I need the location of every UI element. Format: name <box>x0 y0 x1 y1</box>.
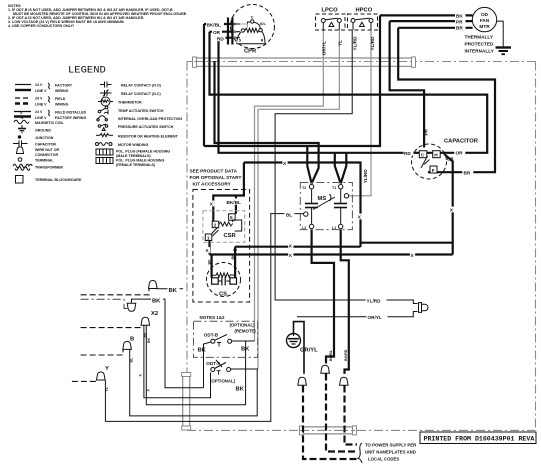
pressure actuated switch <box>98 124 108 131</box>
wire nut 3 (power) <box>340 377 349 385</box>
ODT-B dash-dot box <box>194 321 258 357</box>
svg-text:24 V: 24 V <box>35 83 43 87</box>
legend left column text <box>35 83 87 182</box>
svg-text:BK: BK <box>231 254 235 260</box>
wire fan ground <box>497 21 504 46</box>
wire X2 BK #2 to ODT-B right leg <box>146 326 245 405</box>
svg-text:BR: BR <box>456 26 463 31</box>
svg-text:TERMINAL BLOCK/BOARD: TERMINAL BLOCK/BOARD <box>35 178 82 182</box>
wire T1 left slant from RD line <box>335 153 341 184</box>
wire T2 left slant <box>307 146 311 184</box>
wire OR/YL to bullet plug <box>297 312 418 317</box>
svg-text:CONNECTOR: CONNECTOR <box>35 153 58 157</box>
pol plug male <box>96 158 113 164</box>
right bottom labels <box>366 297 387 303</box>
svg-text:ODT-A: ODT-A <box>206 361 221 366</box>
svg-text:MTR: MTR <box>479 24 490 29</box>
svg-text:LPCO: LPCO <box>322 8 339 14</box>
svg-text:BK/RD: BK/RD <box>344 349 348 361</box>
svg-text:BL: BL <box>129 357 133 363</box>
dash-dot through top bar <box>194 61 414 63</box>
svg-text:BK: BK <box>143 332 147 338</box>
svg-text:PROTECTED: PROTECTED <box>465 42 495 47</box>
svg-text:YL/RD: YL/RD <box>370 36 375 51</box>
svg-text:OR: OR <box>456 151 464 156</box>
relay contact NC <box>100 90 112 97</box>
svg-text:OR/YL: OR/YL <box>368 315 382 320</box>
ground symbol fan <box>496 48 512 55</box>
svg-text:KIT ACCESSORY: KIT ACCESSORY <box>193 182 232 187</box>
svg-text:FAN: FAN <box>480 18 490 23</box>
run capacitor dashed circle <box>412 144 447 179</box>
printed from box <box>420 432 536 444</box>
svg-text:24 V: 24 V <box>35 97 43 101</box>
field wiring lines <box>15 97 31 99</box>
magnetic coil <box>14 120 29 124</box>
svg-text:BK: BK <box>241 347 250 353</box>
svg-text:OR/YL: OR/YL <box>322 41 327 55</box>
enclosure boundary dash-dot right side <box>535 62 537 431</box>
svg-text:(REMOTE): (REMOTE) <box>235 329 257 334</box>
thermistor <box>98 97 113 106</box>
svg-text:RELAY CONTACT (N.C): RELAY CONTACT (N.C) <box>121 92 161 96</box>
svg-text:24 V: 24 V <box>35 110 43 114</box>
wire CSR 1 down to W2 <box>208 240 210 255</box>
wire ODT-A right leg <box>231 368 259 370</box>
wire Y YL to MS coil BL line <box>105 214 303 422</box>
svg-text:GROUND: GROUND <box>35 129 51 133</box>
svg-text:TO POWER SUPPLY PER: TO POWER SUPPLY PER <box>365 443 417 448</box>
svg-text:BK/BL: BK/BL <box>329 349 333 361</box>
wire CS right leg <box>234 247 236 278</box>
svg-text:TRANSFORMER: TRANSFORMER <box>35 166 63 170</box>
wire nut B (down) <box>127 303 136 311</box>
wire ODT-B right leg <box>232 340 255 342</box>
svg-text:LEGEND: LEGEND <box>68 65 106 77</box>
wire fan BR <box>398 27 472 29</box>
svg-text:BK: BK <box>198 348 207 354</box>
svg-text:LOCAL CODES: LOCAL CODES <box>368 457 399 462</box>
svg-text:X2: X2 <box>151 311 158 317</box>
pol plug female <box>96 149 113 155</box>
start kit dashed box <box>193 190 250 303</box>
left vertical grommet bar <box>182 373 191 431</box>
svg-text:OR: OR <box>447 157 455 162</box>
svg-text:BK/BL: BK/BL <box>227 200 241 205</box>
wire fan BK <box>380 14 473 16</box>
wire nut2 dashed down to power <box>326 374 357 452</box>
svg-text:BK: BK <box>456 14 463 19</box>
svg-text:WIRING: WIRING <box>55 103 69 107</box>
wire PR down to capacitor <box>390 21 425 147</box>
svg-text:POL. PLUG (FEMALE HOUSING: POL. PLUG (FEMALE HOUSING <box>116 150 170 154</box>
wire BK/BL down to T2 line <box>203 24 205 146</box>
compressor CPR dashed circle <box>231 5 275 49</box>
svg-text:T2: T2 <box>302 186 306 190</box>
enclosure boundary dash-dot bottom <box>187 429 536 431</box>
svg-text:PR: PR <box>424 128 429 135</box>
svg-text:B: B <box>130 337 134 343</box>
wire nut B field dash-dot <box>81 299 128 308</box>
wire X drop from BR to W2 <box>444 154 453 255</box>
svg-text:YL/RD: YL/RD <box>367 298 382 303</box>
svg-text:LINE V: LINE V <box>35 116 47 120</box>
svg-text:RELAY CONTACT (N.O): RELAY CONTACT (N.O) <box>121 84 162 88</box>
svg-text:2: 2 <box>214 223 217 228</box>
wire nut Y <box>97 372 106 380</box>
svg-text:CPR: CPR <box>244 49 257 55</box>
resistor legend <box>96 134 113 137</box>
svg-text:BK: BK <box>152 299 161 305</box>
transformer legend <box>13 164 32 170</box>
svg-text:MAGNETIC COIL: MAGNETIC COIL <box>35 121 65 125</box>
internal overload <box>97 116 108 121</box>
MS contactor box <box>300 183 352 230</box>
wire CPR BK/BL stub <box>204 23 236 25</box>
svg-text:T1: T1 <box>332 186 336 190</box>
svg-text:(MALE TERMINALS): (MALE TERMINALS) <box>116 154 151 158</box>
wire fan PR <box>390 20 473 22</box>
wire upper X row <box>361 242 453 244</box>
svg-text:YL: YL <box>105 386 109 391</box>
factory wiring lines <box>15 84 31 86</box>
wire nut 1 (power) <box>298 377 307 385</box>
svg-text:BK: BK <box>147 337 151 343</box>
wire CS left leg <box>211 255 213 278</box>
svg-text:TEMP ACTUATED SWITCH: TEMP ACTUATED SWITCH <box>118 109 164 113</box>
HPCO pressure switch <box>348 14 378 30</box>
svg-text:NOTES 1&2: NOTES 1&2 <box>200 315 226 320</box>
svg-text:(OPTIONAL): (OPTIONAL) <box>210 378 236 383</box>
ground symbol circled (GR/YL) <box>287 334 301 348</box>
svg-text:PRINTED FROM D160439P01 REVA: PRINTED FROM D160439P01 REVA <box>424 436 535 443</box>
svg-text:WIRE NUT OR: WIRE NUT OR <box>35 148 60 152</box>
OD fan motor <box>472 7 496 31</box>
svg-text:YL/RD: YL/RD <box>363 169 368 184</box>
svg-text:TERMINAL: TERMINAL <box>35 159 54 163</box>
top grommet bar <box>193 57 416 67</box>
svg-text:RD: RD <box>404 151 411 156</box>
svg-text:BK/BL: BK/BL <box>207 22 221 27</box>
wire HPCO right YL/RD: down to MS coil <box>348 30 371 196</box>
svg-text:PR: PR <box>456 19 463 24</box>
wire ODT-B left leg <box>204 342 212 388</box>
LPCO pressure switch <box>316 14 346 30</box>
wire CPR OR stub <box>210 31 237 33</box>
wire nut labels <box>168 286 180 293</box>
wire second feed down to T2 right slant <box>215 61 319 184</box>
svg-text:BL: BL <box>286 213 292 218</box>
svg-text:CS: CS <box>219 292 227 298</box>
svg-text:UNIT NAMEPLATES AND: UNIT NAMEPLATES AND <box>365 450 416 455</box>
wire MS L1 down to nut3 <box>341 230 349 374</box>
svg-text:F: F <box>432 168 435 173</box>
wire nut A BK right <box>157 288 184 290</box>
wire T2 feed line <box>204 15 380 146</box>
plug stubs into motor <box>236 23 240 25</box>
svg-text:BK: BK <box>236 387 245 393</box>
svg-text:LINE V: LINE V <box>35 103 47 107</box>
svg-text:(OPTIONAL): (OPTIONAL) <box>230 323 256 328</box>
motor winding <box>96 143 113 146</box>
CS start capacitor <box>207 263 241 297</box>
svg-text:FIELD: FIELD <box>55 97 66 101</box>
svg-text:CAPACITOR: CAPACITOR <box>444 139 479 145</box>
svg-text:(FEMALE TERMINALS): (FEMALE TERMINALS) <box>116 163 156 167</box>
svg-text:L2: L2 <box>302 226 306 230</box>
wire T1 right slant from RD line <box>341 153 347 184</box>
relay contact NO <box>100 82 112 88</box>
enclosure boundary dash-dot left side <box>186 62 188 431</box>
wire X line from CSR corner <box>244 163 361 247</box>
wire CPR RD stub <box>219 37 237 39</box>
wire HPCO left YL/RD: down, left, down, right to bullet plug (YL/RD) <box>275 30 417 304</box>
svg-text:FIELD INSTALLED: FIELD INSTALLED <box>55 111 87 115</box>
wire CSR 5 branch <box>235 196 237 214</box>
svg-text:HPCO: HPCO <box>356 8 373 14</box>
svg-text:SEE PRODUCT DATA: SEE PRODUCT DATA <box>190 169 238 174</box>
svg-text:FACTORY: FACTORY <box>55 84 73 88</box>
wire nut B BK: up right down to ODT-B left leg <box>132 299 204 388</box>
svg-text:Y: Y <box>105 366 109 372</box>
wire nut1 dashed down to power <box>303 386 357 460</box>
svg-text:5: 5 <box>230 215 233 220</box>
junction <box>18 135 21 138</box>
wire nut B thermostat <box>123 341 132 349</box>
bottom horizontal grommet bar <box>300 426 357 435</box>
svg-text:PRESSURE ACTUATED SWITCH: PRESSURE ACTUATED SWITCH <box>118 125 174 129</box>
wire OR down and right to capacitor H <box>210 32 488 153</box>
wire CSR feed <box>213 163 244 222</box>
wire W1 row <box>235 246 360 248</box>
ODT-A switch <box>211 360 231 375</box>
svg-text:OD: OD <box>481 12 489 17</box>
wire LPCO YL: down, left to x204 <box>258 30 339 369</box>
svg-text:FOR OPTIONAL START: FOR OPTIONAL START <box>190 175 242 180</box>
svg-text:CAPACITOR: CAPACITOR <box>35 143 56 147</box>
svg-text:4. USE COPPER CONDUCTORS ONLY!: 4. USE COPPER CONDUCTORS ONLY! <box>8 24 74 28</box>
wire nut A <box>149 281 158 289</box>
wire nut 2 (power) <box>321 365 330 373</box>
legend right column text <box>116 84 182 168</box>
svg-text:THERMALLY: THERMALLY <box>465 35 494 40</box>
terminal legend <box>18 158 22 162</box>
dash-dot through bottom bar <box>300 429 355 431</box>
CSR relay inner box <box>203 211 245 242</box>
wire nut3 dashed down to power <box>345 386 358 445</box>
svg-text:BR: BR <box>464 170 471 175</box>
wire B field dashed <box>81 350 123 355</box>
svg-text:ODT-B: ODT-B <box>204 332 219 337</box>
svg-text:WIRING: WIRING <box>55 89 69 93</box>
bullet plug YL/RD OR/YL <box>419 303 422 313</box>
wire MS L2 down to nut2 <box>312 230 334 364</box>
svg-text:GR/YL: GR/YL <box>300 348 318 354</box>
svg-text:MOTOR WINDING: MOTOR WINDING <box>118 143 148 147</box>
CPR motor winding <box>236 20 265 44</box>
wire W2 row <box>210 253 453 255</box>
svg-text:MS: MS <box>318 196 327 202</box>
svg-text:RESISTOR OR HEATING ELEMENT: RESISTOR OR HEATING ELEMENT <box>118 134 179 138</box>
wire nut X2 <box>141 317 150 325</box>
wire ground circle to nut 1 <box>294 322 305 374</box>
wire Y field dashed <box>72 380 98 381</box>
svg-text:YL/RD: YL/RD <box>353 36 358 51</box>
svg-text:C: C <box>251 15 254 19</box>
svg-text:BK: BK <box>169 288 178 294</box>
svg-text:BK: BK <box>207 259 211 265</box>
svg-text:YL: YL <box>338 40 343 46</box>
wire X2 BK #1 to ODT-A left <box>144 326 211 398</box>
svg-text:CSR: CSR <box>224 233 237 239</box>
wire BR loop to capacitor F <box>398 28 495 172</box>
svg-text:JUNCTION: JUNCTION <box>35 136 54 140</box>
wire LPCO OR/YL: down, left, down to ODT-B right <box>255 30 324 341</box>
CPR plug bars <box>227 18 229 45</box>
svg-text:POL. PLUG MALE HOUSING: POL. PLUG MALE HOUSING <box>116 159 165 163</box>
field installed lines <box>14 111 31 113</box>
wire nut legend <box>17 147 24 154</box>
svg-text:1: 1 <box>207 235 210 240</box>
wire B BL to ODT-A right <box>130 350 258 416</box>
wire nut A field side dashed <box>81 289 149 295</box>
svg-text:LINE V: LINE V <box>35 89 47 93</box>
svg-text:R: R <box>261 38 264 42</box>
capacitor legend <box>13 141 28 147</box>
wire X2 field dashed <box>81 326 141 328</box>
temp actuated switch <box>98 106 108 113</box>
svg-text:L1: L1 <box>332 226 336 230</box>
X marks <box>282 160 287 166</box>
svg-text:FACTORY WIRING: FACTORY WIRING <box>55 116 86 120</box>
svg-text:INTERNAL OVERLOAD PROTECTION: INTERNAL OVERLOAD PROTECTION <box>118 117 182 121</box>
ground legend <box>18 125 26 133</box>
svg-text:IOL: IOL <box>260 22 267 26</box>
terminal block legend <box>16 176 24 184</box>
svg-text:RD: RD <box>217 36 224 41</box>
svg-text:INTERNALLY: INTERNALLY <box>465 49 495 54</box>
wire RD line to capacitor C <box>219 38 442 153</box>
enclosure boundary dash-dot top <box>187 61 536 63</box>
svg-text:THERMISTOR: THERMISTOR <box>118 100 142 104</box>
MS contacts <box>305 204 347 208</box>
